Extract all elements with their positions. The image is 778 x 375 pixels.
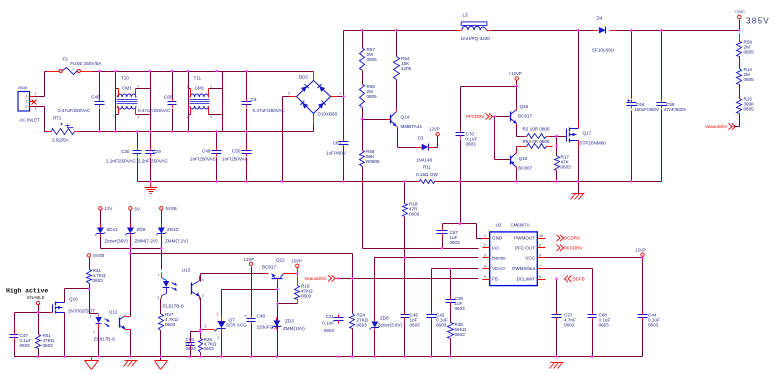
svg-text:C48: C48 (257, 314, 266, 319)
wire C67 column x=442 (442, 224, 444, 249)
mosfet Q10 (50, 297, 96, 314)
svg-text:U12: U12 (109, 310, 118, 315)
svg-text:ZMM(15V): ZMM(15V) (283, 326, 305, 331)
svg-text:D10XB60: D10XB60 (318, 112, 338, 117)
svg-text:47nF/630V: 47nF/630V (664, 107, 687, 112)
svg-text:4: 4 (288, 92, 290, 96)
port VeaoutShA (output) (705, 123, 736, 129)
power port 15VP (291, 259, 302, 268)
svg-text:R2 10R 0805: R2 10R 0805 (522, 127, 550, 132)
optocoupler U12 (90, 310, 131, 342)
svg-text:8: 8 (539, 254, 541, 258)
capacitor C68 (588, 312, 611, 328)
svg-text:T11: T11 (194, 76, 202, 81)
svg-text:1: 1 (217, 313, 219, 317)
svg-text:1: 1 (158, 273, 160, 277)
svg-text:VCC: VCC (525, 256, 535, 261)
wire DCFB/C27 column x=556.5 (556, 279, 558, 357)
svg-text:385V: 385V (746, 16, 770, 25)
wire PFCDRV base column x=494.8 (495, 117, 510, 160)
wire bridge output rail x=343.6 (343, 31, 345, 182)
svg-text:C63: C63 (333, 141, 342, 146)
svg-text:2: 2 (217, 336, 219, 340)
diode D3 (416, 136, 434, 163)
capacitor C28 (446, 296, 466, 311)
svg-text:2.2nF/250VAC: 2.2nF/250VAC (138, 159, 168, 164)
svg-text:0603: 0603 (648, 322, 659, 327)
resistor R54 (394, 56, 412, 80)
capacitor C31 (322, 314, 343, 333)
svg-text:1: 1 (25, 94, 27, 98)
svg-text:12VP: 12VP (244, 257, 255, 262)
svg-text:0805: 0805 (744, 77, 755, 82)
svg-text:2: 2 (93, 331, 95, 335)
svg-text:0805: 0805 (744, 49, 755, 54)
wire output divider rail x=739.3 (734, 42, 740, 127)
power port 12VP (C48) (244, 257, 255, 266)
svg-text:5: 5 (484, 275, 486, 279)
svg-text:ZMM(7.2V): ZMM(7.2V) (165, 239, 188, 244)
thyristor Q7 SCR (201, 313, 248, 341)
svg-text:VEAO: VEAO (492, 266, 505, 271)
svg-text:1: 1 (35, 92, 37, 96)
svg-text:U2: U2 (496, 223, 502, 228)
wire R51 leg x=38 (38, 313, 40, 357)
svg-text:ZMM(7.2V): ZMM(7.2V) (135, 239, 158, 244)
svg-text:F2: F2 (63, 57, 69, 62)
svg-text:CM6807A: CM6807A (511, 223, 530, 228)
wire ZD8 column x=374.8 (374, 258, 376, 357)
wire Q15 emitter to R2 (517, 124, 524, 137)
svg-text:3: 3 (204, 325, 206, 329)
svg-text:DCDRV: DCDRV (564, 236, 580, 241)
inductor L3 (456, 13, 493, 42)
port DCFB (565, 276, 585, 282)
wire R18/C46 column x=404.8 (404, 182, 406, 357)
svg-text:0603: 0603 (324, 328, 335, 333)
wire C66 jog (191, 332, 201, 357)
wire Q12 emitter/base nodes (278, 281, 298, 357)
svg-text:0603: 0603 (564, 322, 575, 327)
svg-text:4: 4 (138, 85, 140, 89)
power port 5VSB (160, 206, 177, 211)
wire ZD10/U13 column x=161.3 (161, 211, 163, 270)
svg-text:0.1uF: 0.1uF (322, 321, 334, 326)
svg-text:0603: 0603 (466, 141, 477, 146)
svg-text:R0805: R0805 (366, 159, 380, 164)
wire bridge left vertex drop x=282 (283, 97, 290, 182)
svg-text:MMBTA44: MMBTA44 (401, 124, 423, 129)
svg-text:0.47uF/250VAC: 0.47uF/250VAC (253, 108, 286, 113)
svg-text:4: 4 (210, 85, 212, 89)
svg-text:0603: 0603 (561, 164, 572, 169)
resistor R14 (737, 67, 755, 85)
svg-text:15VP: 15VP (291, 259, 302, 264)
svg-text:IAC: IAC (492, 245, 500, 250)
svg-text:C30: C30 (121, 149, 130, 154)
zener ZD10 (157, 225, 189, 244)
svg-text:ZD11: ZD11 (107, 227, 118, 232)
connector X508 AC inlet (18, 85, 40, 123)
svg-text:CM1: CM1 (195, 86, 205, 91)
capacitor C8 (242, 72, 286, 132)
port PFCDRV (driver input) (466, 113, 494, 119)
svg-text:ENABLE: ENABLE (27, 295, 44, 300)
wire C28/R35 column x=450.4 (450, 269, 452, 357)
resistor R55 (360, 84, 378, 108)
transistor Q12 (262, 258, 285, 283)
wire SCR cathode (221, 332, 223, 357)
svg-text:2.2nF/250VAC: 2.2nF/250VAC (106, 159, 136, 164)
svg-text:3: 3 (35, 107, 37, 111)
svg-text:2N7002/SOT: 2N7002/SOT (68, 309, 95, 314)
svg-text:X508: X508 (18, 85, 27, 90)
svg-text:0603: 0603 (165, 322, 176, 327)
svg-text:DCLIMIT: DCLIMIT (517, 277, 536, 282)
svg-text:1: 1 (90, 315, 92, 319)
wire D3 to 12VP (434, 137, 438, 148)
wire ENABLE line (y=312.3) (15, 305, 50, 313)
svg-text:5VSB: 5VSB (166, 206, 177, 211)
svg-text:7: 7 (539, 264, 541, 268)
svg-text:12VP: 12VP (429, 127, 440, 132)
resistor R31 (87, 268, 106, 284)
svg-text:0603: 0603 (204, 346, 215, 351)
capacitor C50 (222, 132, 252, 182)
resistor R57 (360, 47, 378, 71)
svg-text:0603: 0603 (186, 346, 197, 351)
wire FB line (y=278.4) (339, 278, 479, 280)
wire C42 column x=431.4 (431, 269, 433, 357)
svg-text:3: 3 (25, 105, 27, 109)
wire clamp line (y=253.4) (131, 254, 353, 279)
svg-text:220uF/25V: 220uF/25V (257, 325, 280, 330)
svg-text:0603: 0603 (455, 332, 466, 337)
resistor R56 (360, 149, 380, 167)
ground (Q17 source) (571, 194, 585, 200)
diode D4 (592, 16, 616, 53)
power port 12VP (D3) (429, 127, 440, 137)
wire C47 leg x=14 (14, 313, 16, 357)
wire Q16 emitter down (516, 167, 518, 182)
common-mode choke T10 (114, 72, 150, 132)
wire C70/GND column x=460 (460, 87, 462, 224)
svg-text:1N4148: 1N4148 (416, 158, 433, 163)
svg-text:Isense: Isense (492, 256, 506, 261)
svg-text:0805: 0805 (367, 94, 378, 99)
resistor R2 (522, 127, 550, 139)
resistor R51 (36, 333, 55, 349)
resistor R27 (159, 312, 179, 331)
svg-text:C29: C29 (153, 149, 162, 154)
svg-text:1nF/250VAC: 1nF/250VAC (222, 157, 249, 162)
wire GND jog to pin1 (y=223.8) (443, 224, 483, 239)
wire ZD9/U12 column x=130.4 (130, 211, 132, 357)
resistor R24 (350, 313, 369, 329)
wire R27 column x=160.8 (160, 299, 162, 361)
svg-text:0603: 0603 (301, 293, 312, 298)
svg-text:FB: FB (492, 277, 498, 282)
svg-text:Q14: Q14 (401, 115, 410, 120)
resistor R53 (518, 139, 553, 149)
wire Q10 source down (64, 313, 66, 357)
ground (Q10 triangle) (85, 357, 99, 370)
power port +12VP (509, 71, 522, 80)
svg-text:EL817B-S: EL817B-S (163, 304, 184, 309)
wire 15VP/R19 column x=297.3 (297, 268, 299, 304)
port PFCDRV (out) (557, 245, 583, 251)
svg-text:Q17: Q17 (583, 131, 592, 136)
mosfet Q17 (567, 122, 607, 149)
svg-text:SF10L60U: SF10L60U (592, 48, 614, 53)
svg-text:150uF/450V: 150uF/450V (634, 107, 660, 112)
wire Q17 drain/source (578, 31, 580, 194)
svg-text:STP20NM60: STP20NM60 (580, 141, 607, 146)
wire VCC line to 12VP (y=257.9) (546, 257, 643, 357)
label High active (6, 288, 48, 295)
svg-text:SCR ACG: SCR ACG (226, 323, 247, 328)
wire lower EMI ground bus (y=181.5) (138, 181, 662, 183)
power port 12V (99, 206, 113, 211)
svg-text:BC817: BC817 (262, 265, 276, 270)
wire VEAO line (y=268.6) (432, 268, 479, 270)
svg-text:3: 3 (484, 254, 486, 258)
svg-text:PFCDRV: PFCDRV (564, 246, 582, 251)
svg-text:0603: 0603 (20, 343, 31, 348)
resistor R15 (737, 97, 756, 114)
wire fuse-to-bridge AC line (y=71) (45, 71, 314, 73)
svg-text:1: 1 (114, 85, 116, 89)
resistor R26 (199, 337, 217, 353)
wire top 385V bus (y=30.2) (344, 20, 740, 31)
svg-text:9: 9 (539, 244, 541, 248)
svg-text:BC817: BC817 (518, 114, 532, 119)
resistor R11 0.15ohm (416, 165, 438, 184)
svg-text:0.47uF/250VAC: 0.47uF/250VAC (138, 108, 171, 113)
zener ZD3 (272, 318, 306, 332)
svg-text:PWMtrifaut: PWMtrifaut (512, 266, 535, 271)
fuse F2 (47, 57, 103, 75)
svg-text:Zener(36V): Zener(36V) (105, 239, 129, 244)
svg-text:GND: GND (492, 236, 503, 241)
wire U13 emitter / SCR gate column x=200.4 (200, 298, 202, 357)
wire 12VP/C48 column x=251 (251, 267, 253, 357)
port VeaoutShA (FB) (304, 275, 338, 281)
svg-text:ZD9: ZD9 (137, 227, 146, 232)
capacitor C27 (552, 312, 576, 328)
svg-text:BD2: BD2 (299, 75, 308, 80)
svg-text:Q15: Q15 (520, 104, 529, 109)
capacitor C44 (638, 312, 660, 328)
svg-text:Q12: Q12 (276, 258, 285, 263)
wire C64 leg x=631.5 (631, 31, 633, 182)
wire U12 LED leg x=98.7 (90, 314, 99, 357)
wire ZD11 column x=100.4 (100, 211, 102, 249)
ground (ZD9 hatch) (124, 361, 138, 367)
power port +VDC 385V (735, 9, 770, 25)
ground (R27 triangle) (155, 361, 168, 370)
svg-text:RT2: RT2 (53, 116, 62, 121)
resistor R35 (448, 322, 467, 339)
svg-text:6: 6 (539, 275, 541, 279)
svg-text:12VP: 12VP (635, 248, 646, 253)
svg-text:12V: 12V (105, 206, 113, 211)
svg-text:+: + (244, 314, 247, 319)
capacitor C65 (138, 72, 177, 132)
svg-text:2.5Ω/5A: 2.5Ω/5A (52, 138, 70, 143)
resistor R58 (737, 34, 755, 57)
resistor R17 (555, 155, 572, 171)
svg-text:0603: 0603 (409, 211, 420, 216)
capacitor C49 (190, 132, 222, 182)
svg-text:C31: C31 (326, 314, 335, 319)
svg-text:2: 2 (484, 244, 486, 248)
svg-text:Q16: Q16 (519, 156, 528, 161)
svg-text:EL817B-S: EL817B-S (94, 337, 115, 342)
wire Q10 drain riser (65, 289, 90, 303)
transistor Q16 (511, 151, 533, 171)
svg-text:T10: T10 (121, 76, 129, 81)
capacitor C64 (electrolytic) (627, 100, 660, 113)
svg-text:FUSE 250V/5A: FUSE 250V/5A (70, 61, 102, 66)
resistor R18 (403, 202, 420, 217)
svg-text:5V: 5V (135, 206, 140, 211)
svg-text:PFC OUT: PFC OUT (515, 245, 535, 250)
power port 5V (129, 206, 140, 211)
svg-text:0805: 0805 (367, 57, 378, 62)
svg-text:D3: D3 (418, 136, 424, 141)
op-amp U2 CM6807A PFC controller (483, 223, 546, 286)
svg-text:ZD3: ZD3 (285, 319, 294, 324)
capacitor C48 (electrolytic) (244, 314, 280, 330)
power port 5VSB (R31) (87, 253, 104, 258)
svg-text:4: 4 (484, 264, 486, 268)
capacitor C47 (10, 332, 32, 348)
wire IAC line (y=248.3) (405, 248, 479, 250)
wire gate node x=556.6 (550, 137, 567, 182)
svg-text:C45: C45 (91, 95, 100, 100)
svg-text:0603: 0603 (93, 278, 104, 283)
svg-text:Zener(3.6V): Zener(3.6V) (378, 323, 403, 328)
svg-text:0.47uF/250VAC: 0.47uF/250VAC (58, 108, 91, 113)
svg-text:U13: U13 (182, 268, 191, 273)
capacitor C67 (437, 228, 461, 245)
svg-text:PWMOUT: PWMOUT (514, 236, 535, 241)
svg-text:DCFB: DCFB (573, 276, 585, 281)
svg-text:2: 2 (114, 115, 116, 119)
wire bottom ground bus (y=356.6) (15, 356, 643, 358)
capacitor C59 (657, 100, 688, 113)
ground (EMI filter) (145, 182, 158, 194)
capacitor C45 (58, 72, 105, 132)
svg-text:3: 3 (210, 115, 212, 119)
svg-text:ZD10: ZD10 (167, 227, 179, 232)
transistor Q14 (391, 109, 423, 130)
wire SCR anode line (y=289.2) (222, 290, 278, 315)
wire R53 to Q16 collector (517, 147, 522, 154)
svg-text:BC807: BC807 (518, 166, 532, 171)
bridge rectifier BD2 (288, 72, 343, 125)
wire R54 rail x=396.5 (396, 31, 398, 109)
zener ZD8 (370, 316, 403, 331)
optocoupler U13 (158, 268, 204, 309)
svg-text:0805: 0805 (744, 106, 755, 111)
wire R24 column x=352.2 (352, 279, 354, 357)
wire zener tie line (y=248.4) (101, 248, 162, 250)
svg-text:High active: High active (6, 288, 48, 295)
wire +12VP feed (y=86) (461, 81, 517, 108)
wire Isense line (y=257.9) (375, 257, 479, 259)
svg-text:2: 2 (158, 296, 160, 300)
svg-text:5VSB: 5VSB (93, 253, 104, 258)
svg-text:1uF/400V: 1uF/400V (326, 151, 347, 156)
svg-text:0603: 0603 (410, 322, 421, 327)
svg-text:0.15Ω /2W: 0.15Ω /2W (416, 172, 438, 177)
svg-text:R11: R11 (423, 165, 432, 170)
svg-text:1: 1 (339, 92, 341, 96)
capacitor C66 (186, 337, 197, 351)
wire U13 collector to Q12 (y=273) (201, 274, 269, 282)
zener ZD9 (126, 225, 158, 244)
wire Q12 leads (263, 273, 298, 275)
capacitor C63 (326, 139, 348, 156)
svg-text:C50: C50 (232, 149, 241, 154)
svg-text:0603: 0603 (436, 322, 447, 327)
port ENABLE (27, 295, 44, 305)
svg-text:R53 0R 0805: R53 0R 0805 (522, 139, 550, 144)
svg-text:VeaoutShA: VeaoutShA (705, 124, 728, 129)
svg-text:0603: 0603 (455, 306, 466, 311)
capacitor C29 (138, 132, 168, 182)
svg-text:CM1: CM1 (122, 86, 132, 91)
wire Q14 emitter to D3 (398, 129, 417, 148)
svg-text:+VDC: +VDC (735, 9, 746, 14)
wire connector pin3 to RT2 (35, 107, 47, 132)
capacitor C30 (106, 132, 142, 182)
svg-text:C49: C49 (202, 149, 211, 154)
svg-text:ZD8: ZD8 (380, 316, 389, 321)
wire pin7 line to C68 (546, 269, 593, 357)
svg-text:1nF/250VAC: 1nF/250VAC (190, 157, 217, 162)
svg-text:3: 3 (138, 115, 140, 119)
svg-text:C8: C8 (251, 97, 257, 102)
svg-text:Q10: Q10 (69, 297, 78, 302)
thermistor RT2 (47, 116, 80, 143)
capacitor C46 (401, 312, 421, 328)
wire C59 leg x=661.3 (661, 31, 663, 182)
ground (IC) (550, 363, 564, 369)
svg-text:0603: 0603 (599, 322, 610, 327)
common-mode choke T11 (187, 72, 223, 132)
wire Q14 base (363, 119, 391, 121)
wire R31 column x=89 (90, 258, 97, 314)
wire R57/R55/R56 rail x=362 (363, 31, 405, 249)
svg-text:0603: 0603 (43, 343, 54, 348)
wire RT2-to-bridge AC line (y=131.5) (80, 125, 314, 132)
wire connector pin1 riser (35, 72, 45, 97)
svg-text:0603: 0603 (450, 240, 461, 245)
svg-text:C65: C65 (164, 95, 173, 100)
port DCDRV (557, 235, 580, 241)
capacitor C42 (427, 312, 448, 328)
svg-text:AC INLET: AC INLET (19, 118, 40, 123)
svg-text:2: 2 (25, 100, 27, 104)
svg-text:1mH/PQ-3220: 1mH/PQ-3220 (461, 36, 491, 41)
svg-text:PFCDRV: PFCDRV (466, 114, 484, 119)
transistor Q15 (511, 104, 533, 127)
svg-text:4: 4 (202, 278, 204, 282)
svg-text:3: 3 (202, 294, 204, 298)
